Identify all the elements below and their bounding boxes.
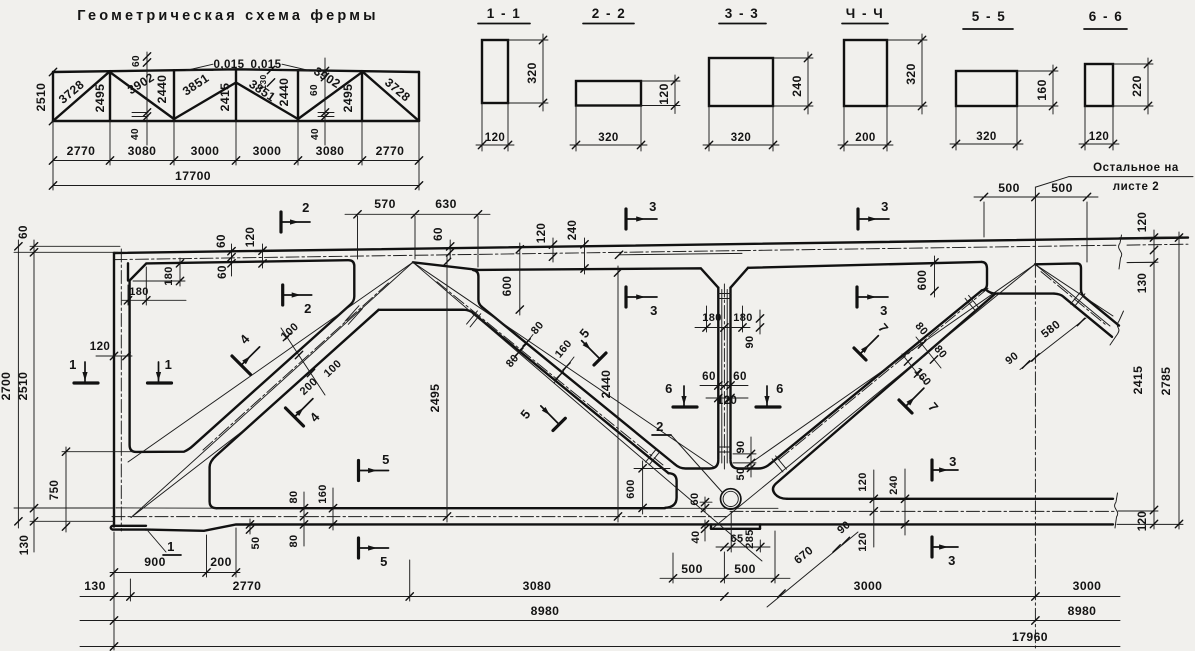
opening 2 upper left boundary diag1 lower face: [210, 310, 379, 508]
svg-text:2495: 2495: [341, 84, 355, 113]
svg-text:3902: 3902: [125, 70, 157, 97]
section 1 - 1 outline: [482, 40, 508, 103]
top chord right of break bottom edge: [1127, 261, 1156, 263]
section 1 - 1 width dim 120: [481, 103, 483, 151]
diag2 upper face: [482, 307, 675, 464]
dim 750 left: [65, 447, 67, 532]
schematic vertical 2495 left: [109, 71, 111, 121]
svg-text:60: 60: [216, 265, 229, 279]
svg-text:80: 80: [529, 319, 547, 337]
section Ч - Ч height dim 320: [887, 39, 927, 41]
left dim line 2700: [17, 240, 19, 528]
dim 580 at ridge D': [1020, 318, 1086, 370]
fan line D' along diag4 axis: [1035, 264, 1110, 326]
dim 600 haunch D': [934, 256, 936, 297]
fan line D' along diag3 axis to node C: [713, 264, 1035, 528]
svg-text:2440: 2440: [277, 78, 291, 107]
section flag 3 pair C lower: [930, 537, 933, 557]
diag1 axis dash-dot: [203, 282, 390, 450]
fan line B' to node A axis: [131, 262, 413, 517]
svg-text:60: 60: [702, 370, 716, 383]
svg-text:2440: 2440: [599, 370, 613, 399]
section flag 1 left: [74, 381, 98, 384]
svg-text:6: 6: [776, 381, 784, 396]
joint lines diag3 bottom: [776, 456, 787, 469]
opening 2 right boundary node C haunch left: [665, 473, 677, 508]
section flag 5 upper bottom chord: [357, 461, 360, 481]
svg-text:8980: 8980: [531, 604, 560, 618]
section 6 - 6 outline: [1085, 64, 1113, 106]
top chord break line: [1119, 235, 1122, 269]
dim 60 at ridge B': [449, 240, 451, 258]
svg-text:160: 160: [911, 366, 933, 389]
svg-text:Ч - Ч: Ч - Ч: [846, 6, 884, 21]
svg-text:6: 6: [665, 381, 673, 396]
dim 670 at node C: [767, 532, 858, 607]
svg-text:120: 120: [1089, 131, 1109, 143]
svg-text:500: 500: [998, 181, 1020, 195]
svg-text:2785: 2785: [1159, 367, 1173, 396]
bottom chord break line: [1115, 493, 1118, 528]
dim 500 500 top right: [974, 196, 1098, 198]
svg-text:17700: 17700: [175, 169, 211, 183]
svg-text:3728: 3728: [56, 77, 87, 106]
fan line D' to node C haunch: [745, 264, 1035, 467]
section 3 - 3 outline: [709, 58, 773, 106]
bottom chord axis right: [730, 510, 1116, 512]
svg-text:2440: 2440: [155, 75, 169, 104]
joint lines V1 bottom: [718, 446, 730, 448]
ridge D' haunch left edge: [982, 262, 988, 291]
schematic diagonal 3902 left: [110, 72, 174, 119]
section 1 - 1 height dim 320: [508, 39, 548, 41]
schematic total dim 17700: [53, 185, 419, 187]
section 2 - 2 width dim 320: [575, 106, 577, 152]
dim 240 at section 3 cut: [584, 238, 586, 274]
svg-text:3: 3: [949, 454, 957, 469]
schematic vertical 2495 right: [361, 71, 363, 121]
left end post inner face: [127, 263, 129, 280]
svg-text:80: 80: [288, 490, 300, 503]
section 5 - 5 height dim 160: [1017, 70, 1058, 72]
drain hole outer circle: [721, 489, 741, 509]
svg-text:листе 2: листе 2: [1113, 181, 1160, 193]
svg-text:320: 320: [976, 131, 996, 143]
ridge D' haunch bottom edge: [987, 291, 1054, 294]
slope mark 0,015 left: [186, 70, 213, 72]
svg-text:180: 180: [163, 266, 175, 286]
svg-text:0,015: 0,015: [250, 58, 281, 71]
svg-text:500: 500: [734, 562, 756, 576]
slope mark 0,015 right: [282, 70, 309, 72]
diag3 lower face: [773, 294, 996, 499]
svg-text:5: 5: [382, 452, 390, 467]
schematic diagonal 3728 right: [362, 71, 419, 121]
svg-text:3 - 3: 3 - 3: [725, 6, 760, 21]
svg-text:60: 60: [689, 492, 701, 505]
diag4 break line: [1110, 311, 1124, 345]
svg-text:500: 500: [681, 562, 703, 576]
right dim line 2785: [1178, 232, 1180, 529]
node C haunch top edge right: [731, 460, 771, 469]
diag3 axis dash-dot: [779, 288, 988, 459]
dim 570 630 above chord: [345, 213, 490, 215]
svg-text:5: 5: [517, 406, 533, 421]
dim 120 240 right of node C: [873, 470, 875, 547]
drain hole inner circle: [723, 491, 738, 506]
dim 600 haunch B': [519, 243, 521, 315]
svg-text:60: 60: [215, 234, 228, 248]
schematic vertical 2440 left: [173, 70, 175, 121]
section flag 3 pair A upper: [624, 209, 627, 229]
dim 180 chamfer horizontal: [122, 299, 186, 301]
svg-text:130: 130: [84, 579, 106, 593]
joint lines diag3 top: [969, 295, 980, 308]
dim 600 node C haunch: [642, 461, 644, 514]
dim 120 at section 3 cut: [552, 238, 554, 262]
svg-text:65: 65: [730, 533, 743, 545]
svg-text:3: 3: [881, 199, 889, 214]
svg-text:2415: 2415: [1131, 366, 1145, 395]
bottom dim 900 200: [110, 572, 240, 574]
svg-text:3: 3: [650, 303, 658, 318]
svg-text:5: 5: [380, 554, 388, 569]
svg-text:2770: 2770: [376, 144, 405, 158]
svg-text:4: 4: [237, 331, 254, 347]
svg-text:1: 1: [165, 357, 173, 372]
left dim line 60 2510 130: [33, 240, 35, 552]
dim 2495: [446, 256, 448, 522]
schematic right end post: [418, 72, 420, 121]
svg-text:900: 900: [144, 555, 166, 569]
vertical V1 axis: [723, 284, 725, 472]
diag3 upper face: [770, 290, 982, 464]
svg-text:4: 4: [307, 409, 324, 425]
dim 180 chamfer vertical: [179, 258, 181, 286]
dim 50 step bottom chord: [249, 519, 251, 534]
svg-text:180: 180: [702, 312, 722, 324]
svg-text:50: 50: [250, 536, 262, 549]
diag4 upper face: [1035, 263, 1119, 325]
svg-text:600: 600: [625, 479, 637, 499]
svg-text:220: 220: [1130, 75, 1144, 97]
fan line node A local: [131, 430, 244, 518]
svg-text:60: 60: [432, 227, 445, 241]
note leader line: [1069, 176, 1193, 178]
svg-text:50: 50: [735, 467, 747, 480]
dim 120 end post width: [96, 355, 132, 357]
svg-text:320: 320: [598, 132, 618, 144]
svg-text:120: 120: [485, 132, 505, 144]
svg-text:3000: 3000: [1073, 579, 1102, 593]
schematic diagonal 3728 left: [53, 71, 110, 121]
section flag 5 lower on diag2: [553, 418, 565, 430]
svg-text:570: 570: [374, 197, 396, 211]
svg-text:3000: 3000: [253, 144, 282, 158]
bottom chord top face through node A: [116, 507, 217, 509]
svg-text:3000: 3000: [191, 144, 220, 158]
diag2 lower face: [474, 314, 669, 474]
svg-text:1: 1: [167, 539, 175, 554]
opening 2 bottom edge bottom chord top face: [217, 507, 666, 509]
section flag 4 lower: [286, 408, 304, 426]
svg-text:90: 90: [735, 440, 747, 453]
opening 1 outline: [130, 260, 355, 452]
svg-text:130: 130: [1136, 273, 1149, 294]
section 6 - 6 width dim 120: [1084, 106, 1086, 150]
dim 2440: [617, 266, 619, 522]
svg-text:750: 750: [48, 480, 61, 501]
svg-text:60: 60: [309, 84, 320, 96]
left end post outer face: [113, 253, 115, 527]
svg-text:3: 3: [649, 199, 657, 214]
svg-text:2700: 2700: [0, 372, 13, 401]
opening 4 top edge: [748, 262, 982, 268]
section flag 1 right: [148, 381, 172, 384]
section 2 - 2 outline: [576, 81, 641, 106]
svg-text:2 - 2: 2 - 2: [592, 6, 627, 21]
section flag 4 upper: [232, 356, 251, 375]
svg-text:60: 60: [733, 370, 747, 383]
svg-text:100: 100: [279, 321, 301, 343]
dim 80 160 80 bottom chord: [303, 492, 305, 546]
vertical V1 left face: [717, 288, 719, 459]
svg-text:670: 670: [792, 544, 816, 567]
node C embedded plate: [711, 528, 760, 530]
svg-text:3851: 3851: [180, 71, 212, 99]
svg-text:7: 7: [925, 399, 941, 414]
section flag 5 upper on diag2: [594, 353, 606, 365]
svg-text:200: 200: [210, 555, 232, 569]
svg-text:Геометрическая схема фермы: Геометрическая схема фермы: [77, 8, 378, 24]
dim 180 180 at node C top: [695, 327, 750, 329]
schematic center vertical 2415: [235, 69, 237, 121]
svg-text:60: 60: [17, 225, 30, 239]
svg-text:8980: 8980: [1068, 604, 1097, 618]
svg-text:130: 130: [18, 535, 31, 556]
schematic diagonal 3902 right: [298, 72, 362, 119]
section flag 3 pair C upper: [930, 460, 933, 480]
section flag 3 pair A lower: [624, 287, 627, 307]
schematic diagonal 3851 right: [236, 83, 298, 120]
section flag 3 pair B lower: [855, 287, 858, 307]
section flag 2 upper: [279, 212, 282, 232]
joint lines diag1 top: [345, 306, 359, 322]
svg-text:2510: 2510: [34, 83, 48, 112]
svg-text:6 - 6: 6 - 6: [1089, 9, 1124, 24]
section Ч - Ч outline: [844, 40, 887, 106]
svg-text:2: 2: [656, 419, 664, 434]
section flag 6 left: [673, 405, 697, 408]
support pad detail 1: [111, 526, 146, 530]
svg-text:2495: 2495: [428, 384, 442, 413]
truss center line: [1034, 187, 1036, 264]
svg-text:2495: 2495: [93, 84, 107, 113]
schematic dim 2510 left: [49, 68, 56, 75]
section 3 - 3 width dim 320: [708, 106, 710, 151]
section 6 - 6 height dim 220: [1113, 63, 1153, 65]
detail 1 leader support pad: [148, 531, 166, 552]
svg-text:120: 120: [244, 227, 257, 248]
dim 90 50 at V1 bottom: [750, 437, 752, 477]
svg-text:160: 160: [317, 484, 329, 504]
svg-text:160: 160: [1035, 79, 1049, 101]
svg-text:600: 600: [916, 270, 929, 291]
svg-text:2: 2: [304, 301, 312, 316]
svg-text:120: 120: [857, 532, 869, 552]
right dim line 120 130 2415 120: [1153, 230, 1155, 529]
dim 40 at node C plate: [704, 520, 706, 541]
svg-text:120: 120: [857, 472, 869, 492]
svg-text:180: 180: [733, 312, 753, 324]
svg-text:2770: 2770: [67, 144, 96, 158]
opening 3 top edge: [413, 262, 718, 287]
svg-text:80: 80: [288, 534, 300, 547]
svg-text:2415: 2415: [218, 83, 232, 112]
svg-text:500: 500: [1051, 181, 1073, 195]
ridge B' haunch right edge stub: [473, 270, 482, 307]
svg-text:240: 240: [888, 475, 900, 495]
svg-text:40: 40: [690, 530, 702, 543]
bottom chord axis left: [112, 516, 730, 518]
top chord axis: [114, 245, 1117, 259]
svg-text:5: 5: [576, 325, 592, 340]
svg-text:600: 600: [501, 276, 514, 297]
joint lines diag2 top: [467, 311, 478, 324]
svg-text:320: 320: [525, 62, 539, 84]
dim 120 at V1: [706, 397, 748, 399]
section flag 5 lower bottom chord: [357, 538, 360, 558]
bottom dim row 130 2770 3080 3000 3000: [80, 596, 1120, 598]
vertical V1 inner lines: [721, 290, 723, 464]
bottom chord bottom face: [146, 524, 1113, 530]
svg-text:90: 90: [744, 335, 756, 348]
section Ч - Ч width dim 200: [843, 106, 845, 151]
svg-text:3080: 3080: [316, 144, 345, 158]
svg-text:120: 120: [717, 394, 738, 407]
bottom chord top face through node C: [666, 507, 778, 509]
section 5 - 5 width dim 320: [955, 106, 957, 150]
joint lines diag4 top: [1071, 291, 1082, 304]
opening 5 bottom edge bottom chord top face: [787, 498, 1113, 500]
svg-text:120: 120: [90, 340, 111, 353]
bottom dim row 17960: [80, 646, 1120, 648]
svg-text:90: 90: [1003, 350, 1021, 367]
svg-text:160: 160: [553, 338, 575, 361]
schematic dim line 60/40 right: [324, 58, 326, 145]
svg-text:120: 120: [1136, 511, 1149, 532]
svg-text:320: 320: [904, 63, 918, 85]
svg-text:200: 200: [855, 132, 875, 144]
svg-text:2770: 2770: [233, 579, 262, 593]
svg-text:0,015: 0,015: [213, 58, 244, 71]
bottom dim row 8980 8980: [80, 620, 1120, 622]
svg-text:90: 90: [835, 519, 853, 537]
svg-text:40: 40: [130, 128, 141, 140]
svg-text:1 - 1: 1 - 1: [487, 6, 522, 21]
svg-text:Остальное на: Остальное на: [1093, 162, 1179, 174]
node C haunch top edge left: [675, 460, 719, 469]
svg-text:3080: 3080: [128, 144, 157, 158]
svg-text:320: 320: [731, 132, 751, 144]
svg-text:285: 285: [744, 529, 756, 549]
dim 80 80 160 on diag2: [512, 335, 533, 362]
svg-text:120: 120: [535, 223, 548, 244]
svg-text:3728: 3728: [382, 75, 413, 104]
top chord top face: [114, 238, 1188, 253]
left end post axis: [120, 249, 122, 531]
svg-text:120: 120: [1136, 212, 1149, 233]
dim 100 100 200 on diag1: [281, 328, 325, 395]
fan line B' along diag2 axis to node C: [413, 262, 762, 561]
svg-text:60: 60: [131, 55, 142, 67]
fan line B' to support corner: [128, 262, 413, 462]
dim 120 panel1: [262, 244, 264, 268]
svg-text:1: 1: [69, 357, 77, 372]
svg-text:80: 80: [504, 352, 522, 370]
diag2 axis dash-dot: [437, 282, 663, 465]
svg-text:17960: 17960: [1012, 630, 1048, 644]
svg-text:5 - 5: 5 - 5: [972, 9, 1007, 24]
schematic left end post: [52, 72, 54, 121]
fan line B' to node C haunch: [413, 262, 714, 467]
schematic panel dim row: [53, 160, 419, 162]
svg-text:630: 630: [435, 197, 457, 211]
dim 60 at drain hole: [704, 497, 706, 512]
ridge B' haunch bottom edge: [379, 310, 474, 314]
svg-text:240: 240: [566, 220, 579, 241]
svg-text:240: 240: [790, 75, 804, 97]
chord axis reference line: [619, 253, 742, 254]
section flag 7 lower on diag3: [899, 400, 912, 413]
section 2 - 2 height dim 120: [641, 80, 680, 82]
svg-text:7: 7: [875, 320, 891, 335]
section flag 3 pair B upper: [856, 209, 859, 229]
schematic vertical 2440 right: [297, 70, 299, 121]
dim 80 80 160 on diag3: [916, 337, 941, 368]
diag4 axis: [1041, 272, 1106, 325]
vertical V1 right face: [729, 288, 731, 459]
svg-text:3080: 3080: [523, 579, 552, 593]
schematic dim line 60/40 left: [146, 52, 148, 145]
diag4 lower face: [1054, 294, 1112, 337]
svg-text:3: 3: [880, 303, 888, 318]
dim 60 panel1 above chord: [231, 244, 233, 276]
schematic bottom chord: [53, 120, 419, 122]
vertical V1 right chamfer: [731, 268, 749, 288]
svg-text:3000: 3000: [854, 579, 883, 593]
schematic top chord: [53, 69, 419, 72]
dim 90 at node C top: [759, 310, 761, 334]
section flag 6 right: [756, 405, 780, 408]
section flag 2 lower: [281, 285, 284, 305]
joint lines V1 top: [718, 293, 730, 295]
dim 500 500 bottom node C: [660, 577, 790, 579]
svg-text:2: 2: [302, 200, 310, 215]
dim 60 60 at V1: [700, 385, 748, 387]
fan line D' to mirror haunch: [1035, 264, 1113, 316]
schematic diagonal 3851 left: [174, 83, 236, 120]
joint lines diag2 bottom: [646, 449, 657, 462]
section 3 - 3 height dim 240: [773, 57, 813, 59]
section flag 7 upper on diag3: [854, 348, 866, 360]
svg-text:100: 100: [322, 358, 344, 380]
section 5 - 5 outline: [956, 71, 1017, 106]
dim 65 285 at node C: [716, 546, 770, 548]
svg-text:40: 40: [310, 128, 321, 140]
svg-text:3: 3: [948, 553, 956, 568]
svg-text:120: 120: [657, 83, 671, 105]
